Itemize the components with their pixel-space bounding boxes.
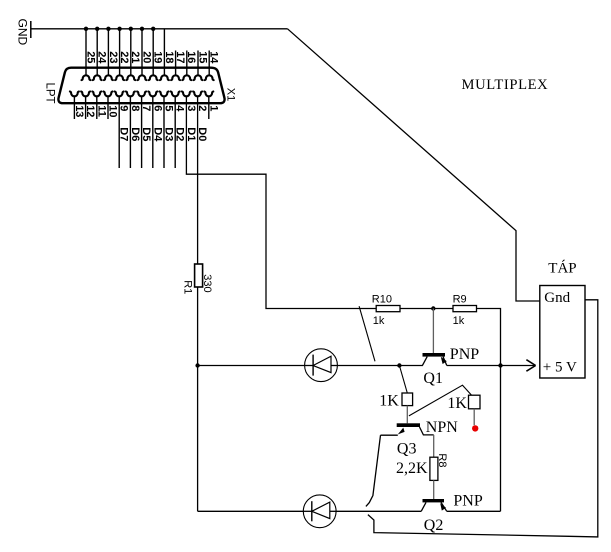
svg-text:12: 12 <box>84 105 96 117</box>
svg-text:1K: 1K <box>379 392 399 409</box>
svg-text:4: 4 <box>174 105 186 112</box>
svg-text:1K: 1K <box>447 395 467 412</box>
svg-text:D4: D4 <box>151 127 163 142</box>
svg-text:PNP: PNP <box>453 493 482 510</box>
svg-text:16: 16 <box>185 51 197 63</box>
svg-text:D6: D6 <box>129 127 141 141</box>
svg-text:Q3: Q3 <box>397 441 417 458</box>
svg-text:R8: R8 <box>436 453 448 467</box>
svg-text:3: 3 <box>185 105 197 111</box>
svg-text:1k: 1k <box>373 315 385 327</box>
svg-text:6: 6 <box>151 105 163 111</box>
svg-text:11: 11 <box>95 105 107 117</box>
svg-text:23: 23 <box>107 51 119 63</box>
svg-text:D2: D2 <box>174 127 186 141</box>
svg-text:MULTIPLEX: MULTIPLEX <box>462 77 549 93</box>
svg-text:2,2K: 2,2K <box>396 460 428 477</box>
svg-text:5: 5 <box>163 105 175 111</box>
svg-text:X1: X1 <box>224 88 236 101</box>
svg-text:24: 24 <box>96 51 108 64</box>
svg-text:9: 9 <box>118 105 130 111</box>
svg-text:GND: GND <box>16 19 30 46</box>
svg-text:19: 19 <box>152 51 164 63</box>
svg-text:1k: 1k <box>453 315 465 327</box>
svg-text:7: 7 <box>140 105 152 111</box>
svg-text:TÁP: TÁP <box>548 260 576 277</box>
svg-text:1: 1 <box>207 105 219 111</box>
svg-text:R1: R1 <box>181 280 193 294</box>
svg-text:Gnd: Gnd <box>544 290 570 306</box>
svg-text:D7: D7 <box>118 127 130 141</box>
svg-text:Q1: Q1 <box>423 370 443 387</box>
svg-text:R10: R10 <box>372 294 392 306</box>
svg-text:22: 22 <box>118 51 130 63</box>
svg-text:NPN: NPN <box>426 419 458 436</box>
svg-text:LPT: LPT <box>44 83 56 104</box>
svg-text:D3: D3 <box>163 127 175 141</box>
svg-text:18: 18 <box>163 51 175 63</box>
svg-text:10: 10 <box>107 105 119 117</box>
svg-text:D1: D1 <box>185 127 197 141</box>
svg-text:PNP: PNP <box>450 346 479 363</box>
svg-text:13: 13 <box>73 105 85 117</box>
svg-text:15: 15 <box>196 51 208 63</box>
svg-text:Q2: Q2 <box>424 517 444 534</box>
svg-text:D5: D5 <box>140 127 152 141</box>
svg-text:17: 17 <box>174 51 186 63</box>
svg-text:R9: R9 <box>453 294 467 306</box>
svg-text:+ 5 V: + 5 V <box>543 360 577 376</box>
svg-text:21: 21 <box>129 51 141 63</box>
svg-text:25: 25 <box>84 51 96 63</box>
svg-text:D0: D0 <box>196 127 208 141</box>
svg-text:8: 8 <box>129 105 141 111</box>
svg-text:330: 330 <box>201 274 213 292</box>
svg-text:14: 14 <box>208 51 220 64</box>
svg-text:2: 2 <box>196 105 208 111</box>
svg-text:20: 20 <box>140 51 152 63</box>
